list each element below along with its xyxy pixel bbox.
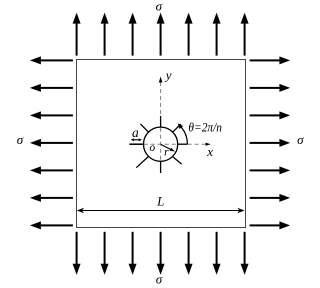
radius arrow r xyxy=(161,144,175,151)
left tension arrow 2 xyxy=(30,84,73,92)
left tension arrow 6 xyxy=(30,194,73,202)
svg-text:σ: σ xyxy=(17,132,24,147)
top tension arrow 5 xyxy=(185,13,193,56)
right tension arrow 6 xyxy=(250,194,291,202)
plate (square specimen outline) xyxy=(77,60,246,228)
crack at 315 degrees xyxy=(173,157,182,165)
svg-text:σ: σ xyxy=(156,272,163,287)
svg-text:θ=2π/n: θ=2π/n xyxy=(188,120,222,135)
bottom tension arrow 1 xyxy=(73,232,81,275)
left tension arrow 4 xyxy=(30,139,73,147)
right tension arrow 1 xyxy=(250,56,291,64)
y axis dashed line inside hole xyxy=(160,128,162,161)
bottom tension arrow 2 xyxy=(101,232,109,275)
crack at 0 degrees xyxy=(178,143,188,145)
plate width dimension line L xyxy=(77,208,245,214)
crack at 135 degrees xyxy=(140,124,148,132)
svg-text:y: y xyxy=(164,67,172,82)
bottom tension arrow 3 xyxy=(129,232,137,275)
right tension arrow 4 xyxy=(250,139,291,147)
top tension arrow 6 xyxy=(213,13,221,56)
top tension arrow 2 xyxy=(101,13,109,56)
crack at 45 degrees xyxy=(173,124,181,132)
x axis arrowhead xyxy=(206,143,211,146)
right tension arrow 2 xyxy=(250,84,291,92)
svg-text:r: r xyxy=(164,147,169,159)
left tension arrow 7 xyxy=(30,221,73,229)
right tension arrow 3 xyxy=(250,111,291,119)
right tension arrow 7 xyxy=(250,221,291,229)
left tension arrow 3 xyxy=(30,111,73,119)
svg-text:x: x xyxy=(206,144,213,159)
circular hole xyxy=(144,127,178,161)
crack at 225 degrees xyxy=(136,157,148,168)
y axis arrowhead xyxy=(159,77,163,83)
bottom tension arrow 5 xyxy=(185,232,193,275)
x axis dashed line inside hole xyxy=(144,143,178,145)
right tension arrow 5 xyxy=(250,166,291,174)
top tension arrow 7 xyxy=(241,13,249,56)
angle arc theta xyxy=(179,125,188,145)
top tension arrow 4 xyxy=(157,13,165,56)
svg-text:o: o xyxy=(149,142,155,154)
crack at 180 degrees xyxy=(129,143,143,145)
top tension arrow 1 xyxy=(73,13,81,56)
left tension arrow 1 xyxy=(30,56,73,64)
svg-text:σ: σ xyxy=(297,132,304,147)
crack at 270 degrees xyxy=(160,161,162,173)
bottom tension arrow 6 xyxy=(213,232,221,275)
bottom tension arrow 7 xyxy=(241,232,249,275)
crack at 90 degrees xyxy=(160,116,162,127)
svg-text:σ: σ xyxy=(156,0,163,13)
bottom tension arrow 4 xyxy=(157,232,165,275)
y axis dashed line upper segment xyxy=(160,82,162,116)
x axis dashed line right segment xyxy=(188,143,207,145)
svg-text:L: L xyxy=(156,194,164,209)
svg-text:a: a xyxy=(132,125,139,140)
angle arc arrowhead xyxy=(178,123,183,129)
left tension arrow 5 xyxy=(30,166,73,174)
crack length dimension arrow a xyxy=(131,138,142,141)
top tension arrow 3 xyxy=(129,13,137,56)
